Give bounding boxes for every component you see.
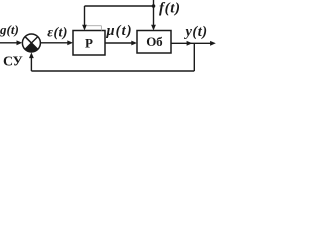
svg-text:g(t): g(t) [0, 22, 19, 37]
wire: feedback rise into summer [30, 57, 32, 72]
wire: feedback branch down from output [193, 43, 195, 71]
wire: error signal from summer to P [40, 42, 68, 44]
svg-text:СУ: СУ [3, 55, 23, 70]
summing junction with X and filled lower sector [22, 34, 40, 52]
svg-text:ε(t): ε(t) [47, 25, 68, 40]
wire: feedback bottom run [31, 70, 194, 72]
wire: output y(t) with mid arrowhead [171, 42, 211, 44]
svg-text:Об: Об [146, 34, 163, 49]
wire: top feedforward line from f(t) junction to regulator [85, 5, 154, 7]
wire: control signal from P to object [105, 42, 133, 44]
svg-text:Р: Р [85, 36, 93, 51]
svg-text:f(t): f(t) [159, 0, 181, 16]
svg-text:y(t): y(t) [184, 24, 208, 40]
wire: vertical drop into regulator P [84, 6, 86, 26]
block Ob : controlled object [137, 31, 171, 54]
node: junction dot on f(t) line [152, 4, 156, 8]
wire: g(t) input arrow into summer [0, 42, 18, 44]
wire: f(t) input vertical into object [153, 0, 155, 26]
svg-text:μ(t): μ(t) [106, 23, 133, 39]
block P : regulator [73, 31, 105, 56]
wire: faint scan ghost segment above P [87, 25, 101, 27]
